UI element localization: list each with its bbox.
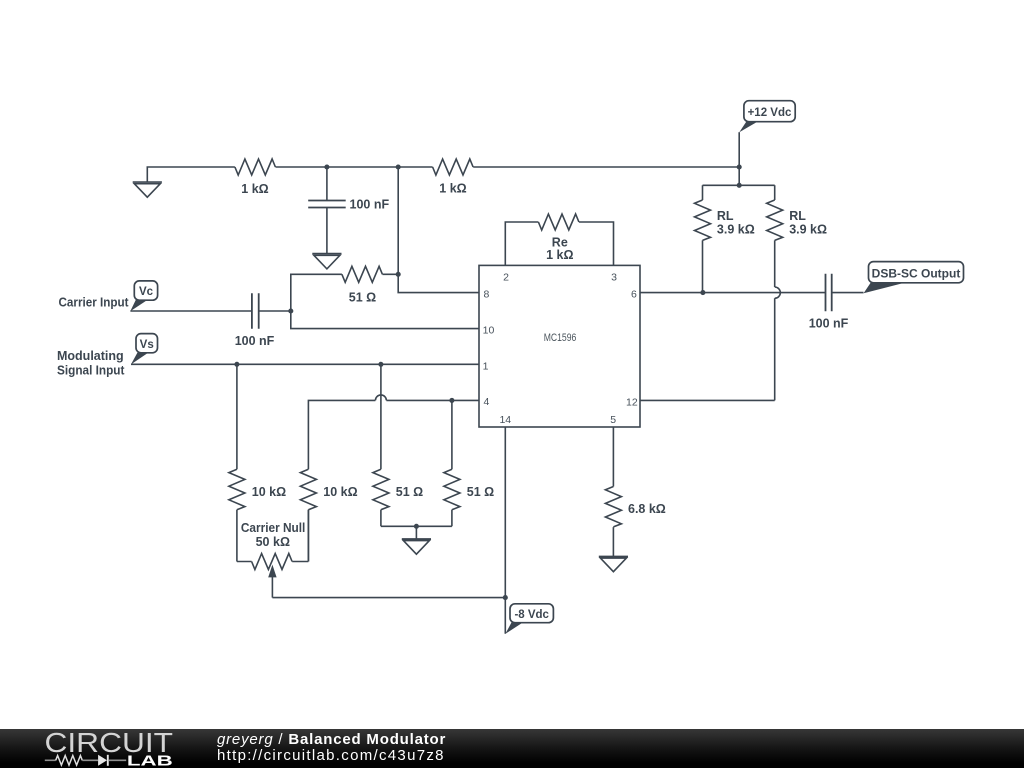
value label R9 (628, 502, 666, 516)
svg-text:Signal Input: Signal Input (57, 364, 125, 378)
resistor R1 1 kΩ (top left) (235, 159, 275, 175)
wire Vs to pin 1 (131, 363, 479, 365)
svg-text:51 Ω: 51 Ω (349, 290, 376, 304)
node junction pin1 wire / R5 (234, 362, 239, 367)
capacitor C1 100 nF (carrier coupling) (252, 293, 259, 329)
wire R8 top lead (451, 400, 453, 469)
svg-text:8: 8 (483, 288, 489, 300)
svg-text:100 nF: 100 nF (235, 334, 275, 348)
potentiometer P1 Carrier Null 50 kΩ body (237, 510, 309, 570)
pin number 3 (611, 271, 617, 283)
node junction R7/R8 ground (414, 524, 419, 529)
resistor R9 6.8 kΩ (bias) (605, 427, 621, 556)
wire top rail right segment (473, 166, 739, 168)
potentiometer P1 wiper arrow (271, 577, 273, 598)
svg-text:Vs: Vs (140, 339, 154, 351)
wire RL top bar (703, 184, 775, 186)
svg-text:1: 1 (483, 360, 489, 372)
footer title text (217, 731, 446, 748)
svg-text:3.9 kΩ: 3.9 kΩ (789, 223, 827, 237)
ground G4 (below R9) (599, 556, 628, 571)
svg-text:50 kΩ: 50 kΩ (256, 535, 290, 549)
ground G1 (top left) (133, 182, 162, 197)
svg-text:3: 3 (611, 271, 617, 283)
node junction C1 / pin10 branch (288, 308, 293, 313)
svg-text:5: 5 (610, 414, 616, 426)
svg-text:Modulating: Modulating (57, 349, 124, 363)
node junction top rail / 51Ω branch (396, 164, 401, 169)
node junction top rail / +12V (737, 164, 742, 169)
flag +12 Vdc supply (739, 101, 795, 133)
footer banner (0, 729, 1024, 768)
resistor RL2 3.9 kΩ (right load) (767, 185, 783, 287)
wire wiper to -8V rail (272, 597, 505, 599)
resistor Re 1 kΩ (emitter degeneration) (538, 214, 578, 230)
svg-text:Carrier Input: Carrier Input (59, 295, 130, 309)
svg-text:LAB: LAB (127, 753, 173, 768)
svg-text:MC1596: MC1596 (544, 332, 577, 344)
pin number 8 (483, 288, 489, 300)
svg-text:RL: RL (717, 209, 734, 223)
pin number 4 (483, 396, 489, 408)
value label C1 (235, 334, 275, 348)
wire pin 4 with hop over R7 branch (308, 395, 479, 469)
IC label MC1596 (544, 332, 577, 344)
flag Vc (carrier input terminal) (130, 281, 157, 311)
wire C3 bottom lead (326, 208, 328, 254)
svg-text:10 kΩ: 10 kΩ (252, 485, 286, 499)
wire pin 6 to C2 (640, 292, 826, 294)
wire C1 to node (259, 310, 291, 312)
svg-text:2: 2 (503, 271, 509, 283)
svg-text:3.9 kΩ: 3.9 kΩ (717, 223, 755, 237)
wire bar between R7 and R8 bottoms (381, 526, 452, 539)
svg-text:100 nF: 100 nF (350, 198, 390, 212)
value label R5 (252, 485, 286, 499)
wire top rail middle segment (276, 166, 433, 168)
resistor R6 10 kΩ (300, 469, 316, 561)
svg-text:1 kΩ: 1 kΩ (241, 182, 268, 196)
capacitor C3 100 nF (decoupling, vertical) (308, 201, 346, 208)
capacitor C2 100 nF (output coupling) (826, 274, 832, 312)
resistor R2 1 kΩ (top middle) (433, 159, 473, 175)
value label R2 (439, 182, 466, 196)
wire vertical from top rail to 51Ω (397, 167, 399, 274)
IC U1 MC1596 body (479, 265, 640, 427)
svg-text:51 Ω: 51 Ω (467, 485, 494, 499)
resistor R7 51 Ω (373, 364, 389, 526)
CircuitLab logo (0, 729, 180, 768)
value label R6 (323, 485, 357, 499)
svg-text:6: 6 (631, 288, 637, 300)
wire 51Ω left lead down to C1 node (291, 274, 342, 311)
svg-text:12: 12 (626, 397, 638, 409)
wire from 51Ω node to pin 8 (398, 274, 479, 292)
value label C3 (350, 198, 390, 212)
wire pin 2 riser (505, 222, 538, 265)
svg-text:-8 Vdc: -8 Vdc (514, 609, 549, 621)
node junction pin6 / RL1 (700, 290, 705, 295)
wire node to pin 10 (291, 311, 479, 329)
pin number 1 (483, 360, 489, 372)
svg-text:RL: RL (789, 209, 806, 223)
node junction wiper wire / pin14 rail (503, 595, 508, 600)
svg-text:Carrier Null: Carrier Null (241, 521, 306, 535)
svg-text:DSB-SC Output: DSB-SC Output (872, 266, 961, 280)
resistor RL1 3.9 kΩ (left load) (695, 185, 711, 292)
flag Vs (modulating input terminal) (131, 334, 158, 365)
pin number 10 (483, 325, 495, 337)
value label RL1 (717, 209, 755, 237)
wire Vc to C1 (130, 310, 252, 312)
wire C3 top lead (326, 167, 328, 201)
node junction +12V / RL bar (737, 183, 742, 188)
node junction top rail / C3 (324, 164, 329, 169)
value label R3 (349, 290, 376, 304)
pin number 5 (610, 414, 616, 426)
node junction pin4 wire / R8 (449, 398, 454, 403)
label Modulating Signal Input (57, 349, 125, 378)
pin number 14 (499, 414, 511, 426)
ground G2 (below C3) (312, 254, 341, 269)
flag -8 Vdc supply (505, 604, 553, 634)
wire pin 12 to RL2 (640, 399, 775, 401)
resistor R8 51 Ω (444, 469, 460, 526)
label P1 Carrier Null 50 kΩ (241, 521, 306, 549)
label Carrier Input (59, 295, 130, 309)
svg-text:4: 4 (483, 396, 489, 408)
svg-text:6.8 kΩ: 6.8 kΩ (628, 502, 666, 516)
resistor R3 51 Ω (carrier input series) (342, 266, 398, 282)
value label R7 (396, 485, 423, 499)
wire RL2 hop over pin6 wire (775, 287, 781, 400)
pin number 6 (631, 288, 637, 300)
svg-text:51 Ω: 51 Ω (396, 485, 423, 499)
resistor R5 10 kΩ (229, 364, 245, 561)
pin number 12 (626, 397, 638, 409)
svg-text:+12 Vdc: +12 Vdc (748, 107, 792, 119)
pin number 2 (503, 271, 509, 283)
wire pin 14 down to -8V (504, 427, 506, 634)
value label RL2 (789, 209, 827, 237)
svg-text:10: 10 (483, 325, 495, 337)
value label C2 (809, 317, 849, 331)
wire C2 to output flag (832, 292, 864, 294)
svg-text:1 kΩ: 1 kΩ (546, 248, 573, 262)
svg-text:100 nF: 100 nF (809, 317, 849, 331)
node junction pin1 wire / R7 (378, 362, 383, 367)
wire top rail left segment (147, 167, 235, 182)
footer url text (217, 747, 445, 764)
value label R8 (467, 485, 494, 499)
wire pin 3 riser (579, 222, 614, 265)
svg-text:14: 14 (499, 414, 511, 426)
svg-text:1 kΩ: 1 kΩ (439, 182, 466, 196)
svg-text:10 kΩ: 10 kΩ (323, 485, 357, 499)
ground G3 (R7/R8) (402, 539, 431, 554)
svg-text:Vc: Vc (139, 286, 154, 298)
wire +12V drop (738, 132, 740, 185)
value label Re (546, 235, 573, 261)
value label R1 (241, 182, 268, 196)
flag DSB-SC Output (864, 262, 964, 294)
node junction 51Ω right end (396, 272, 401, 277)
